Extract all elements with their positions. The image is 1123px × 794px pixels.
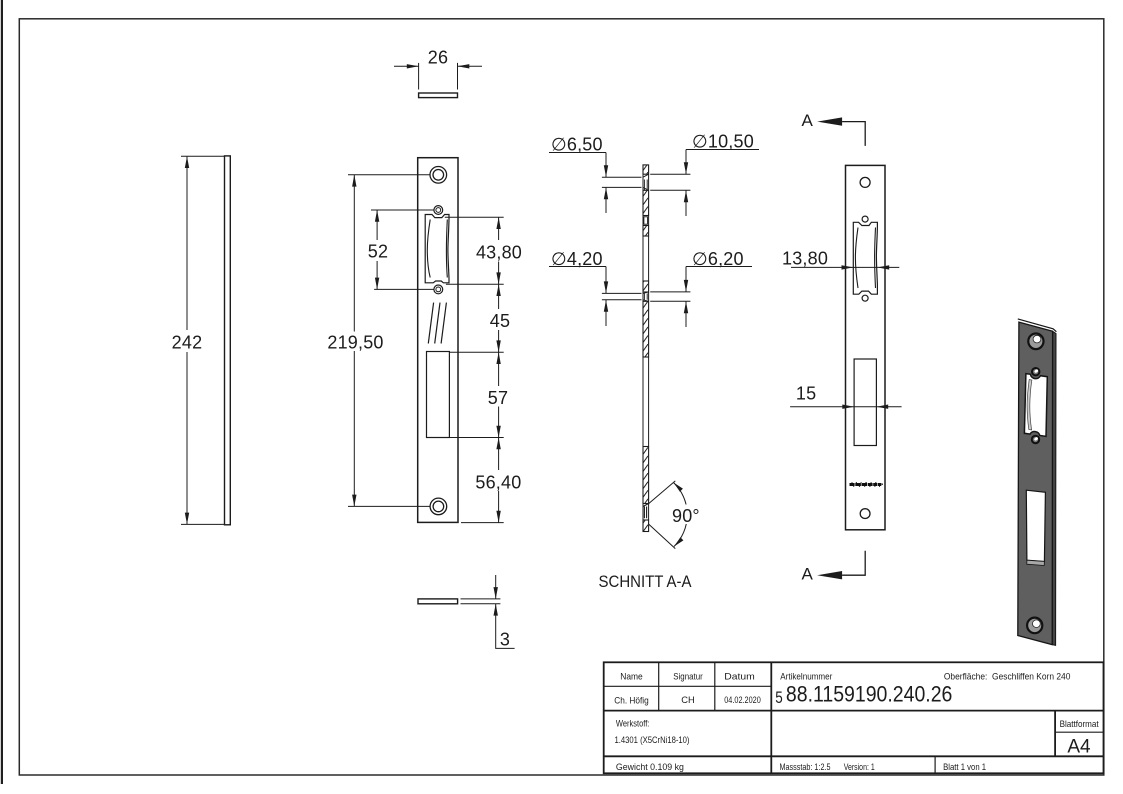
dim 13,80 arrow left [842,265,854,269]
column line signatur/datum [714,662,716,710]
svg-text:Oberfläche: Geschliffen Korn: Oberfläche: Geschliffen Korn 240 [944,671,1071,681]
upper small hole outer [434,206,443,215]
dim 15 arrow left [842,405,854,409]
title block outer border [604,662,1104,773]
row line under name row [604,710,1104,712]
ext line deadbolt top right [449,351,503,353]
svg-text:∅10,50: ∅10,50 [692,132,754,152]
deadbolt cutout rect [427,352,450,438]
vent line 1 [428,303,433,344]
column line blattformat [1054,711,1056,757]
side view plate bar [225,156,231,525]
iso top screw hole [1028,334,1043,350]
dim 242 line upper segment [186,156,188,330]
countersink hole3 profile [643,292,649,301]
dim 219,50 line lower [353,351,355,506]
page left edge artifact [1,0,3,784]
svg-text:A: A [802,111,814,130]
svg-text:04.02.2020: 04.02.2020 [724,695,761,705]
row line under header labels [604,685,772,687]
dim 52 arrow down [375,278,379,290]
rv lower small hole [862,295,868,301]
svg-text:CH: CH [681,695,695,705]
svg-text:Blatt 1 von 1: Blatt 1 von 1 [943,762,986,772]
top view plate bar [419,93,458,98]
90 arc arrow lower [674,537,683,546]
latch cutout left lip curve [427,220,430,278]
section arrow top [817,117,842,125]
svg-text:5: 5 [775,688,783,707]
arrow 56,40 down [496,511,500,523]
svg-text:13,80: 13,80 [782,249,828,269]
upper small hole inner [436,208,441,213]
rv top screw hole [860,177,870,187]
ext lines Ø10,50 [650,173,690,175]
iso latch lip shading [1027,380,1032,430]
arrow 43,80 up [496,217,500,229]
90 degree arc [674,483,688,547]
svg-text:SCHNITT A-A: SCHNITT A-A [599,573,692,591]
rv latch right lip curve [874,228,877,289]
ext lines Ø6,20 [650,291,690,293]
svg-text:Signatur: Signatur [673,672,703,682]
dim 242 extension line top [181,155,225,157]
right dim chain line seg1 [498,217,500,240]
iso deadbolt bottom wall [1027,560,1045,565]
dim 26 arrow left [407,64,419,68]
dim 15 line [790,406,902,408]
bottom screw hole outer [430,498,447,515]
svg-text:Version: 1: Version: 1 [844,762,875,772]
svg-text:15: 15 [796,384,816,404]
ext line deadbolt bottom right [449,437,503,439]
column line name/signatur [658,662,660,710]
90 degree countersink line upper [649,481,676,504]
rv stamp strip [850,482,884,487]
svg-text:219,50: 219,50 [327,333,383,353]
dim 219,50 arrow down [352,495,356,507]
90 arc arrow upper [674,483,683,492]
arrow 45 down / 57 up pair [496,340,500,352]
dim 3 arrow up [494,604,498,616]
iso side face [1052,331,1056,645]
countersink hole1 profile [643,174,649,190]
svg-text:90°: 90° [672,506,700,526]
svg-text:43,80: 43,80 [476,243,522,263]
iso top outline [1018,319,1057,332]
iso upper small hole [1032,368,1039,375]
vent line 3 [441,303,446,344]
section bar hatched segments [643,165,649,174]
iso front face [1018,322,1053,644]
svg-text:1.4301 (X5CrNi18-10): 1.4301 (X5CrNi18-10) [615,735,690,745]
ext line top hole to 219,50 [348,174,430,176]
svg-text:57: 57 [488,388,508,408]
section bar white segments outlines [642,174,644,190]
top screw hole outer [430,167,447,184]
svg-text:Blattformat: Blattformat [1060,719,1099,729]
right view plate outline [846,165,886,529]
svg-text:Werkstoff:: Werkstoff: [616,719,650,729]
right dim chain line seg4 [498,407,500,471]
column line datum/artikelnummer [770,662,772,773]
svg-text:242: 242 [172,333,203,353]
top screw hole inner [433,170,444,181]
dim 26 line right leader [458,65,483,67]
front plate outline [418,158,458,523]
vent line 2 [435,303,440,344]
90 text mask [671,505,701,525]
dim 52 line upper [376,210,378,240]
dim 3 line below + leader [496,604,515,649]
iso deadbolt cutout [1026,490,1045,561]
svg-text:A4: A4 [1067,737,1091,758]
column line massstab/blatt [934,756,936,773]
row line under blattformat label [1055,731,1103,733]
dim 52 line lower [376,261,378,289]
right dim chain line seg2 [498,262,500,310]
svg-text:Datum: Datum [724,671,755,681]
section arrow bottom [817,571,842,579]
dim 15 arrow right [876,405,888,409]
ext line latch bottom right [446,283,504,285]
dim 3 ext line top [461,598,501,600]
dim 242 arrow up [185,156,189,168]
ext line latch top right [445,216,504,218]
lower small hole outer [434,285,443,294]
arrow 57 down / 56,40 up pair [496,426,500,438]
svg-text:Massstab: 1:2.5: Massstab: 1:2.5 [780,762,831,772]
right dim chain line seg3 [498,330,500,386]
svg-text:Name: Name [620,671,643,681]
bottom view plate bar [418,599,458,604]
dim 3 line above [495,575,497,599]
dim 219,50 arrow up [352,175,356,187]
right dim chain line seg5 [498,491,500,523]
dim 3 arrow down [494,587,498,599]
section cut indicator top [842,122,865,146]
ext lines Ø4,20 [602,292,642,294]
dim 26 extension line right [457,63,459,90]
dim 219,50 line upper [353,175,355,332]
90 degree countersink line lower [649,524,676,548]
svg-text:88.1159190.240.26: 88.1159190.240.26 [786,682,953,707]
rv latch left lip curve [855,228,858,289]
dim 13,80 arrow right [877,265,889,269]
svg-text:∅6,50: ∅6,50 [551,135,603,155]
rv latch cutout outline [853,222,877,294]
hole2 boss walls [644,217,648,224]
countersink hole4 profile [643,504,649,519]
bottom screw hole inner [433,501,444,512]
rv deadbolt cutout [854,359,876,446]
latch cutout outline [425,215,449,283]
iso top chamfer band [1018,319,1057,332]
iso latch cutout [1024,374,1047,437]
svg-text:Gewicht 0.109 kg: Gewicht 0.109 kg [616,762,684,772]
dim 242 extension line bottom [181,523,225,525]
iso lower small hole [1032,436,1039,443]
dim 3 ext line bottom [461,603,501,605]
svg-text:26: 26 [428,48,448,68]
arrow 43,80 down / 45 up pair [496,272,500,284]
latch cutout right lip curve [445,220,448,278]
ext lines Ø6,50 [602,176,642,178]
svg-text:A: A [802,565,814,584]
ext line plate bottom right [461,522,504,524]
dim 26 line left leader [394,65,419,67]
dim 26 arrow right [458,64,470,68]
svg-text:3: 3 [500,630,510,650]
svg-text:Artikelnummer: Artikelnummer [780,671,832,681]
lower small hole inner [436,287,441,292]
svg-text:Ch. Höfig: Ch. Höfig [614,695,649,705]
row line above bottom row [604,755,1104,757]
dim 52 arrow up [375,210,379,222]
ext line lower small hole [374,288,434,290]
rv upper small hole [862,216,868,222]
svg-text:52: 52 [368,242,388,262]
ext line upper small hole [371,209,434,211]
dim 13,80 line [791,266,899,268]
section cut indicator bottom [842,551,865,576]
dim 242 line lower segment [186,352,188,524]
iso bottom screw hole [1027,618,1042,634]
rv bottom screw hole [860,509,870,519]
dim 242 arrow down [185,513,189,525]
dim 26 extension line left [418,63,420,90]
svg-text:56,40: 56,40 [475,473,521,493]
ext line bottom hole to 219,50 [348,505,430,507]
svg-text:45: 45 [490,311,510,331]
